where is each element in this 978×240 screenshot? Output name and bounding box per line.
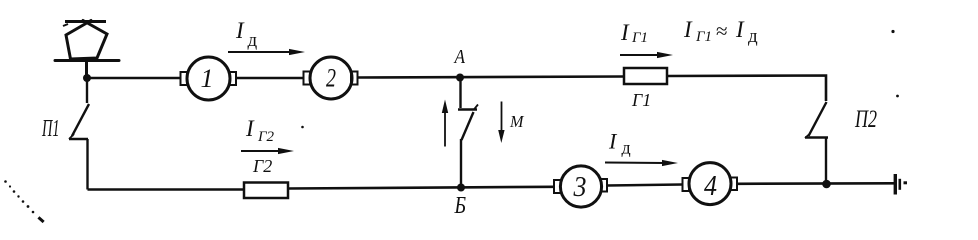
wire: bottom bus, resistor Г2 to motor 3 bbox=[288, 187, 554, 189]
svg-text:I: I bbox=[235, 18, 245, 43]
wire: contactor to node Б bbox=[460, 139, 462, 187]
svg-text:3: 3 bbox=[573, 171, 587, 203]
svg-text:Г1: Г1 bbox=[631, 30, 648, 46]
node Б dot bbox=[457, 184, 465, 192]
wire: bottom bus left segment bbox=[88, 188, 245, 191]
wire: П2 to bottom bus bbox=[825, 138, 827, 185]
svg-text:д: д bbox=[748, 26, 758, 47]
svg-text:4: 4 bbox=[704, 170, 717, 202]
svg-text:2: 2 bbox=[326, 64, 336, 93]
switch П1 bbox=[69, 78, 89, 139]
motor 2 bbox=[304, 57, 358, 99]
contactor M: upper fixed contact bbox=[458, 78, 478, 110]
svg-text:I: I bbox=[245, 116, 255, 141]
pantograph contact wire bbox=[63, 22, 106, 27]
svg-text:А: А bbox=[453, 46, 466, 68]
arrow up (closing direction) bbox=[442, 100, 448, 147]
svg-text:д: д bbox=[622, 138, 631, 158]
svg-text:I: I bbox=[683, 17, 693, 42]
svg-text:1: 1 bbox=[201, 64, 214, 93]
wire: П1 down to bottom bus bbox=[86, 139, 88, 190]
wire: motor 2 to resistor Г1 through node A bbox=[358, 77, 625, 78]
svg-text:I: I bbox=[620, 20, 630, 45]
svg-text:М: М bbox=[509, 112, 524, 131]
wire: resistor Г1 to corner bbox=[667, 76, 826, 102]
node: pantograph junction dot bbox=[83, 74, 91, 82]
resistor Г2 bbox=[244, 183, 288, 199]
wire: top bus from junction to motor 1 bbox=[87, 77, 181, 80]
resistor Г1 bbox=[624, 68, 667, 84]
svg-text:д: д bbox=[248, 30, 258, 51]
svg-text:Б: Б bbox=[454, 193, 466, 219]
svg-text:I: I bbox=[735, 17, 745, 42]
svg-text:П2: П2 bbox=[854, 106, 877, 133]
label IГ1 bbox=[620, 20, 648, 46]
node: П2 junction dot bbox=[822, 180, 831, 189]
contactor M: blade bbox=[462, 112, 474, 140]
pantograph (current collector) bbox=[55, 21, 119, 79]
wire: motor 3 to motor 4 bbox=[607, 185, 682, 186]
speckles (scan artifacts, bottom-left arc) bbox=[4, 30, 899, 223]
svg-text:Г2: Г2 bbox=[252, 156, 272, 176]
svg-text:≈: ≈ bbox=[716, 19, 728, 43]
label IГ1 ≈ Iд bbox=[683, 17, 758, 47]
svg-text:Г1: Г1 bbox=[695, 29, 712, 45]
arrow IГ1 (top right) bbox=[620, 52, 673, 58]
motor 1 bbox=[181, 57, 237, 100]
svg-text:Г2: Г2 bbox=[257, 129, 275, 145]
arrow IГ2 bbox=[241, 148, 294, 154]
arrow Iд (armature current, top left) bbox=[228, 49, 305, 55]
label Iд (top left) bbox=[235, 18, 258, 51]
arrow Iд (bottom) bbox=[605, 160, 678, 166]
svg-text:П1: П1 bbox=[41, 116, 59, 142]
wire: motor 4 to rail terminal bbox=[737, 182, 894, 185]
switch П2 blade bbox=[805, 102, 828, 138]
arrow down M (opening direction) bbox=[498, 102, 504, 144]
node A dot bbox=[456, 74, 464, 82]
motor 3 bbox=[554, 166, 607, 207]
label Iд (bottom) bbox=[608, 129, 631, 158]
wire: motor 1 to motor 2 bbox=[236, 77, 304, 80]
svg-text:Г1: Г1 bbox=[631, 90, 651, 110]
label IГ2 bbox=[245, 116, 275, 145]
motor 4 bbox=[683, 163, 738, 205]
rail / ground terminal bbox=[895, 174, 907, 195]
